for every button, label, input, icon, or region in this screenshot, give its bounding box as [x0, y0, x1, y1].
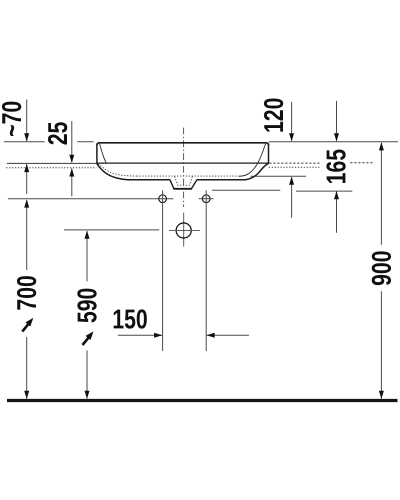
dim line 25 lower tail	[71, 168, 73, 196]
inner bowl hidden bottom dotted	[137, 175, 239, 177]
arrowhead 900 up	[379, 142, 384, 150]
counter line dashed right of basin	[269, 162, 321, 164]
dim line 165 lower tail	[336, 191, 338, 232]
arrowhead 120 up	[289, 177, 294, 185]
label 700	[17, 276, 36, 310]
basin under-curve left	[97, 164, 170, 180]
dim line 150 left	[118, 334, 162, 336]
counter line dashed right of 165 label	[350, 162, 374, 164]
basin under-curve right	[197, 164, 269, 180]
dim line 590 upper	[86, 231, 88, 281]
arrowhead ~70 up	[24, 164, 29, 172]
floor line	[7, 399, 398, 402]
basin left wall	[96, 145, 98, 164]
basin rim top	[97, 143, 269, 145]
label 900	[372, 251, 391, 285]
label ~70	[2, 102, 21, 136]
arrowhead 25 up	[69, 168, 74, 176]
dim line 120 lower tail	[291, 177, 293, 218]
dim line 900 lower	[380, 291, 382, 399]
faucet-hole axis line (700 ref)	[8, 198, 174, 200]
inner bowl curve right	[239, 144, 266, 177]
rim-top extension line left segment A	[4, 141, 45, 143]
dim line 590 lower	[86, 350, 88, 398]
basin right wall	[268, 145, 270, 164]
arrowhead 700 down at floor	[24, 391, 29, 399]
basin bottom extension line (120 ref)	[251, 175, 307, 177]
drain boss bottom	[173, 188, 192, 190]
arrowhead 590 up	[85, 231, 90, 239]
drain boss left side	[170, 180, 174, 189]
dim line 700 upper	[26, 200, 28, 270]
drain circle horizontal tick	[169, 229, 200, 231]
dim line 900 upper	[380, 143, 382, 245]
drain boss right side	[191, 180, 197, 189]
rim-top extension line right	[269, 141, 398, 143]
center line dash-dot	[183, 128, 185, 207]
center line tick through drain circle	[183, 213, 185, 247]
drain hidden cup dotted	[175, 176, 193, 185]
inner bowl curve left hidden dotted part	[98, 164, 136, 176]
label 590	[77, 289, 96, 323]
dim line 165 upper	[336, 101, 338, 141]
basin mid front edge line	[97, 162, 269, 164]
drain axis line (590 ref)	[64, 229, 159, 231]
hidden dotted line right	[269, 166, 320, 168]
faucet hole right circle	[202, 195, 210, 203]
rim-top extension line left segment B	[77, 141, 93, 143]
dim line 120 upper	[291, 102, 293, 141]
dim line 150 right	[207, 334, 249, 336]
arrowhead 165 up	[334, 191, 339, 199]
arrowhead 120 down	[289, 133, 294, 141]
inner bowl curve left (visible part)	[100, 144, 107, 164]
faucet hole left circle	[159, 195, 167, 203]
counter line solid left	[7, 162, 97, 164]
drain bottom extension line (165 ref) left part	[212, 189, 280, 191]
arrowhead 150 left-pointing	[207, 333, 215, 338]
arrowhead ~70 down	[24, 133, 29, 141]
arrowhead 590 down at floor	[85, 391, 90, 399]
faucet hole right vertical extension line	[205, 190, 207, 351]
arrowhead 900 down at floor	[379, 391, 384, 399]
label 165	[326, 149, 345, 182]
arrowhead 150 right-pointing	[154, 333, 162, 338]
label 25	[48, 122, 67, 144]
adjust arrow 590	[83, 337, 90, 345]
dim line 25 upper	[71, 121, 73, 162]
dim line ~70 upper	[26, 100, 28, 141]
drain bottom extension line (165 ref) right part	[296, 190, 352, 192]
arrowhead 165 down	[334, 133, 339, 141]
label 150	[114, 309, 147, 328]
hidden dotted line left	[6, 167, 96, 169]
dim line ~70 lower tail	[26, 164, 28, 194]
adjust arrow 700	[22, 323, 29, 331]
drain circle	[176, 223, 191, 238]
arrowhead 25 down	[69, 155, 74, 163]
arrowhead 700 up	[24, 199, 29, 207]
faucet hole left vertical extension line	[162, 190, 164, 351]
dim line 700 lower	[26, 337, 28, 399]
label 120	[264, 98, 283, 131]
faucet-hole axis line right part	[199, 198, 214, 200]
